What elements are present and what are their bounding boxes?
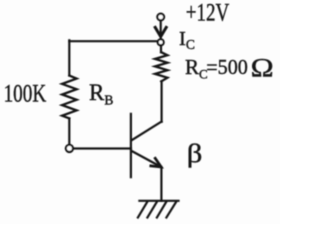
svg-text:Ω: Ω [251,53,274,82]
svg-text:RB: RB [89,80,113,108]
transistor Q1 emitter diagonal [132,151,162,167]
svg-text:100K: 100K [4,81,47,108]
ground hatch 3 [157,202,166,218]
resistor RC zigzag [155,52,167,81]
resistor RB zigzag [62,76,77,119]
wire node to RC [160,45,162,52]
ground bar [139,200,178,202]
arrowhead Ic (current direction down) [155,27,166,36]
wire RB bottom lead [68,118,70,144]
emitter arrowhead [151,158,161,167]
ground hatch 2 [147,202,157,218]
ground hatch 4 [166,202,176,218]
svg-text:=500: =500 [206,55,248,79]
ground hatch 1 [138,202,147,218]
transistor Q1 base bar [130,114,132,177]
base input terminal (open circle) [66,145,73,152]
wire supply to node [160,21,162,39]
wire emitter vertical [160,167,162,201]
wire collector vertical [161,81,163,121]
svg-text:+12V: +12V [186,0,230,27]
svg-text:RC: RC [185,55,208,81]
wire base horizontal [73,147,131,149]
terminal +12V (open circle) [157,14,164,21]
svg-text:IC: IC [179,28,195,52]
node (open circle junction) [158,39,164,45]
wire top horizontal [69,40,157,42]
transistor Q1 collector diagonal [132,122,162,141]
wire left vertical [68,40,70,75]
svg-text:β: β [187,140,203,168]
